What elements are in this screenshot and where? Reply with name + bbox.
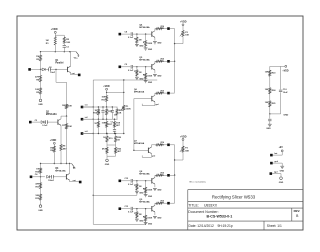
port OUT Q7 (167, 144, 170, 147)
resistor R9 (53, 146, 55, 152)
port OUT Q8 (167, 174, 170, 177)
wire (40, 94, 42, 99)
resistor Rc5 (156, 60, 163, 62)
wire (133, 66, 152, 68)
wire S6 bias to loop (145, 215, 147, 224)
transistor Q5 (151, 64, 153, 69)
svg-text:1M: 1M (36, 169, 39, 171)
svg-text:C7: C7 (111, 122, 113, 124)
potentiometer P2 (182, 31, 184, 37)
wire emitter Q6 (154, 102, 156, 106)
svg-text:10K: 10K (185, 35, 189, 37)
resistor Rc9 (156, 202, 163, 204)
svg-text:in3: in3 (85, 131, 88, 133)
svg-text:Parallel: Parallel (55, 63, 64, 65)
wire (121, 33, 130, 35)
transistor Q4 (151, 31, 153, 36)
svg-text:GND: GND (38, 104, 43, 106)
wire (66, 116, 68, 123)
svg-text:+VDD: +VDD (50, 139, 57, 142)
resistor R16 (116, 109, 118, 115)
resistor R10 (40, 164, 42, 168)
resistor R21 (106, 147, 108, 153)
ground center (106, 159, 109, 162)
wire (133, 180, 152, 182)
resistor R25 (269, 101, 271, 107)
wire (182, 26, 184, 31)
wire summing rail lower (174, 145, 176, 203)
wire (272, 173, 281, 175)
svg-text:10K: 10K (35, 89, 39, 91)
svg-text:47K: 47K (35, 76, 39, 79)
svg-text:B-CS-W533-0-1: B-CS-W533-0-1 (207, 214, 233, 218)
wire (170, 28, 175, 30)
wire (55, 34, 64, 36)
resistor R11 (39, 183, 41, 189)
svg-text:100K: 100K (147, 76, 152, 78)
wire (32, 121, 41, 123)
resistor R22 (115, 147, 117, 153)
port OUT3 (79, 181, 82, 184)
wire (170, 92, 175, 94)
wire (182, 141, 184, 147)
svg-text:GND: GND (283, 114, 288, 116)
svg-text:10K: 10K (265, 102, 269, 104)
resistor R20 (115, 136, 117, 142)
wire loop mid (93, 194, 137, 196)
wire (53, 152, 55, 163)
wire (106, 102, 108, 108)
resistor R1 (54, 37, 56, 45)
wire supply bottom (270, 113, 281, 115)
capacitor C13 (130, 207, 132, 211)
wire (63, 47, 65, 51)
ground (136, 190, 138, 191)
port OUT Q4 (167, 27, 170, 30)
svg-text:REV:: REV: (294, 209, 301, 213)
svg-text:10K: 10K (35, 195, 39, 197)
wire loop top (93, 79, 157, 81)
resistor R17 (106, 121, 108, 127)
resistor Rb8b (145, 181, 147, 187)
svg-text:100K: 100K (126, 108, 131, 110)
wire (40, 61, 42, 69)
wire (170, 144, 175, 146)
svg-text:GND: GND (148, 196, 153, 198)
svg-text:MPSA18A: MPSA18A (55, 170, 66, 173)
svg-text:GND: GND (148, 82, 153, 84)
wire collector Q2 (60, 116, 62, 119)
svg-text:+VDD: +VDD (51, 28, 58, 31)
wire (121, 208, 130, 210)
title block (188, 190, 303, 230)
svg-text:NC = no battery: NC = no battery (190, 180, 207, 183)
ground jack (280, 165, 284, 167)
wire collector Q1 (70, 52, 72, 66)
svg-text:0.1uF: 0.1uF (128, 184, 134, 186)
transistor Q7 (147, 148, 149, 153)
svg-text:Date: 12/14/2012 9H:19:21p: Date: 12/14/2012 9H:19:21p (189, 224, 233, 228)
wire cap branch (280, 66, 282, 89)
resistor Rc8 (156, 174, 163, 176)
wire (170, 174, 175, 176)
svg-text:10K: 10K (66, 42, 70, 44)
diode D2 (41, 121, 44, 124)
port M1 (81, 106, 84, 109)
svg-text:in2: in2 (85, 117, 88, 119)
svg-text:Vb+: Vb+ (74, 58, 79, 60)
capacitor C10 (279, 89, 282, 91)
port OUT1 (78, 74, 81, 77)
svg-text:GND: GND (157, 189, 162, 191)
port PAGND (270, 172, 273, 175)
svg-text:GND: GND (157, 43, 162, 45)
svg-text:1M: 1M (139, 40, 142, 42)
resistor Rb5b (145, 67, 147, 73)
resistor R14 (97, 109, 99, 115)
svg-text:MPSA18A: MPSA18A (139, 201, 150, 204)
svg-text:Document Number:: Document Number: (188, 210, 218, 214)
svg-text:gnd: gnd (156, 104, 159, 106)
wire (53, 176, 66, 178)
wire bus LFO (41, 163, 72, 165)
transistor Q2 (57, 119, 59, 124)
resistor R4 (39, 75, 41, 82)
resistor R6 (65, 104, 67, 108)
wire emitter Q2 (60, 125, 62, 144)
capacitor C3 (44, 121, 45, 123)
transistor Q8 (151, 178, 153, 183)
svg-text:+VDD: +VDD (180, 135, 187, 138)
ground (136, 218, 138, 219)
svg-text:100K: 100K (147, 218, 152, 220)
ground (145, 221, 147, 222)
svg-text:10K: 10K (68, 105, 72, 107)
wire (121, 66, 130, 68)
wire (106, 153, 108, 156)
svg-text:GND: GND (157, 75, 162, 77)
svg-text:1M: 1M (139, 214, 142, 216)
svg-text:MPSA18A: MPSA18A (139, 59, 150, 62)
ground (153, 73, 157, 75)
wire (123, 110, 125, 133)
wire loop bottom (93, 223, 145, 225)
svg-text:GND: GND (280, 170, 285, 172)
capacitor C6 (111, 107, 113, 110)
diode D1 (42, 68, 45, 71)
wire loop vertical (92, 80, 94, 224)
svg-text:1M: 1M (46, 40, 49, 42)
svg-text:Sheet: 1/1: Sheet: 1/1 (267, 224, 282, 228)
resistor Rb4b (145, 34, 147, 40)
wire (170, 202, 175, 204)
ground (145, 47, 147, 48)
svg-text:Rectifying Slicer W533: Rectifying Slicer W533 (212, 195, 256, 200)
resistor R2 (63, 37, 65, 43)
wire (54, 34, 56, 37)
wire (162, 144, 167, 146)
svg-text:100K: 100K (147, 190, 152, 192)
ground jack 2 (280, 177, 283, 180)
wire (66, 109, 68, 117)
wire emitter Q5 (154, 70, 156, 73)
resistor R17b (97, 121, 99, 127)
wire (269, 66, 271, 70)
wire (31, 68, 42, 70)
svg-text:10K: 10K (68, 126, 72, 128)
resistor R3 (40, 52, 42, 55)
svg-text:0.1uF: 0.1uF (128, 37, 134, 39)
svg-text:0.1uF: 0.1uF (128, 212, 134, 214)
output arrow LFO (72, 164, 75, 168)
wire (106, 142, 108, 145)
wire (40, 69, 42, 75)
capacitor C9 (130, 65, 132, 69)
svg-text:GND: GND (266, 128, 271, 130)
wire (53, 144, 55, 146)
wire collector Q3 (69, 164, 71, 174)
wire emitter Q7 (151, 154, 153, 158)
ground (145, 193, 147, 194)
capacitor C8 (130, 32, 132, 36)
svg-text:+VDD: +VDD (282, 71, 289, 73)
resistor Rc7 (156, 144, 163, 146)
capacitor C1 (63, 43, 65, 45)
wire (60, 151, 62, 164)
ground (136, 76, 138, 77)
wire (269, 107, 271, 114)
port OUT Q5 (167, 60, 170, 63)
ground A (39, 99, 42, 102)
wire bus3 (82, 133, 124, 135)
svg-text:gnd: gnd (152, 156, 155, 158)
resistor Rb4a (136, 34, 138, 37)
wire summing rail upper (174, 29, 176, 93)
wire supply top (270, 65, 281, 67)
wire (280, 92, 282, 114)
ground (153, 187, 157, 189)
svg-text:10K: 10K (101, 97, 105, 99)
svg-text:MPSA18A: MPSA18A (134, 142, 145, 145)
capacitor C12 (130, 179, 132, 183)
wire (269, 76, 271, 88)
wire S5 bias to loop (136, 190, 138, 196)
wire (182, 152, 184, 160)
resistor Rb8a (136, 181, 138, 184)
ground (145, 79, 147, 80)
port M3 (81, 132, 84, 135)
wire collector Q7 (151, 145, 153, 147)
svg-text:MPSA18A: MPSA18A (139, 173, 150, 176)
wire to pot (107, 91, 124, 93)
transistor Q6 (151, 96, 153, 101)
svg-text:GND: GND (148, 49, 153, 51)
port P+9V (270, 154, 273, 157)
resistor R12 (39, 194, 41, 200)
wire (106, 90, 108, 95)
wire bus2 (82, 118, 118, 120)
svg-text:GND: GND (148, 224, 153, 226)
border frame (17, 16, 303, 230)
wire emitter Q3 (69, 180, 71, 182)
svg-text:GND: GND (139, 220, 144, 222)
resistor R23 (269, 70, 271, 76)
wire collector Q5 (154, 61, 156, 63)
wire return (142, 156, 151, 158)
svg-text:10K: 10K (102, 122, 106, 124)
wire (133, 33, 152, 35)
svg-text:MPSA18A: MPSA18A (46, 113, 57, 116)
resistor Rc4 (156, 28, 163, 30)
potentiometer P3 (182, 146, 184, 152)
wire bus1 (82, 106, 118, 108)
resistor R18 (113, 121, 115, 127)
wire (133, 208, 152, 210)
svg-text:0.1uF: 0.1uF (42, 125, 48, 127)
ground (136, 43, 138, 44)
wire return (142, 105, 155, 107)
svg-text:100uF: 100uF (48, 180, 55, 182)
svg-text:1M: 1M (50, 147, 53, 149)
resistor R24 (269, 88, 271, 94)
svg-text:10uF: 10uF (283, 92, 289, 94)
wire collector Q6 (154, 93, 156, 95)
wire collector Q9 (154, 203, 156, 205)
svg-text:bat: bat (274, 152, 277, 155)
svg-text:out: out (73, 179, 76, 182)
port OUT Q6 (167, 92, 170, 95)
port M2 (81, 118, 84, 121)
port IN Q8 (119, 180, 122, 183)
wire emitter Q8 (154, 184, 156, 187)
svg-text:MPSA18A: MPSA18A (139, 26, 150, 29)
ground (153, 41, 157, 43)
power +VDD R (281, 65, 285, 67)
capacitor C5 (102, 107, 104, 110)
port OUT Q9 (167, 202, 170, 205)
wire (40, 200, 42, 204)
wire (182, 37, 184, 44)
svg-text:GND: GND (105, 164, 110, 166)
wire (40, 173, 42, 177)
svg-text:100K: 100K (147, 43, 152, 45)
svg-text:10K: 10K (265, 72, 269, 74)
wire (54, 45, 56, 52)
wire S4 base (134, 149, 149, 151)
capacitor C4 (50, 176, 52, 178)
wire (40, 177, 42, 183)
transistor Q3 (65, 174, 67, 179)
wire (50, 68, 67, 70)
svg-text:GND: GND (139, 192, 144, 194)
svg-text:0.1uF: 0.1uF (128, 70, 134, 72)
resistor Rc6 (156, 92, 163, 94)
resistor Rb9a (136, 209, 138, 212)
svg-text:50K: 50K (185, 150, 189, 152)
wire (273, 162, 283, 164)
wire (41, 51, 77, 53)
wire emitter Q1 (70, 73, 72, 75)
svg-text:1M: 1M (36, 56, 39, 58)
capacitor C2 (45, 68, 48, 70)
wire (162, 92, 167, 94)
resistor R8 (60, 145, 62, 151)
resistor R5 (39, 88, 41, 94)
svg-text:out: out (72, 72, 75, 75)
wire emitter Q4 (154, 37, 156, 40)
wire (121, 180, 130, 182)
wire collector Q8 (154, 175, 156, 177)
port IN Q4 (119, 33, 122, 36)
resistor R15 (106, 109, 108, 115)
wire (170, 60, 175, 62)
ground C (39, 205, 42, 208)
svg-text:+VDD: +VDD (103, 85, 110, 88)
svg-text:MPSA18A: MPSA18A (134, 90, 145, 93)
svg-text:10uF: 10uF (50, 72, 56, 74)
resistor R19 (106, 136, 108, 142)
resistor Rb9b (145, 209, 147, 215)
port IN Q5 (119, 66, 122, 69)
wire (273, 154, 283, 156)
port IN Q9 (119, 207, 122, 210)
ground (153, 215, 157, 217)
wire (47, 121, 58, 123)
resistor R13 (106, 96, 108, 102)
transistor Q1 (67, 67, 69, 72)
wire base drop (55, 69, 57, 82)
diode D3 (47, 175, 50, 178)
svg-text:+VDD: +VDD (180, 21, 187, 24)
svg-text:GND: GND (139, 78, 144, 80)
wire emitter Q9 (154, 212, 156, 215)
svg-text:10K: 10K (265, 89, 269, 91)
capacitor C7 (113, 129, 116, 131)
ground R2 (269, 121, 271, 124)
svg-text:+9V: +9V (279, 147, 284, 149)
svg-text:TITLE:: TITLE: (188, 204, 199, 208)
wire S3 base (134, 98, 152, 100)
svg-text:47K: 47K (35, 183, 39, 186)
output arrow Vout (76, 52, 79, 56)
port IN3 (30, 176, 33, 179)
resistor Rb5a (136, 67, 138, 70)
transistor Q9 (151, 206, 153, 211)
wire (32, 176, 45, 178)
wire base web (133, 99, 135, 151)
svg-text:in1: in1 (85, 105, 88, 107)
wire (269, 94, 271, 101)
svg-text:U833XX: U833XX (204, 204, 218, 208)
wire (162, 28, 167, 30)
power +9V (281, 150, 283, 152)
svg-text:GND: GND (139, 46, 144, 48)
potentiometer P1 (123, 105, 125, 110)
wire (162, 60, 167, 62)
svg-text:GND: GND (279, 182, 284, 184)
capacitor C11 (269, 114, 271, 119)
port IN1 (28, 68, 31, 71)
svg-text:1M: 1M (139, 186, 142, 188)
svg-text:GND: GND (38, 210, 43, 212)
port IN2 (29, 121, 32, 124)
wire (162, 174, 167, 176)
svg-text:GND: GND (157, 217, 162, 219)
port PGND (270, 162, 273, 165)
wire (162, 202, 167, 204)
wire collector Q4 (154, 29, 156, 31)
svg-text:1M: 1M (139, 72, 142, 74)
